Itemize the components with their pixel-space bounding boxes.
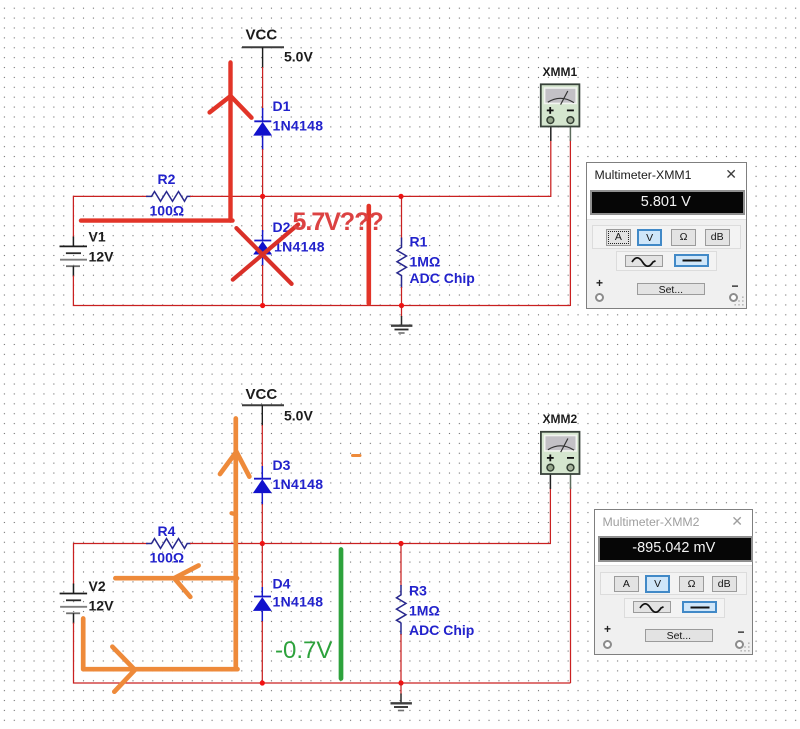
- node H junction (ground node): [398, 680, 403, 685]
- svg-text:1MΩ: 1MΩ: [409, 602, 440, 618]
- svg-text:100Ω: 100Ω: [150, 549, 185, 565]
- resistor R3 1Mohm ADC Chip: [397, 582, 475, 638]
- svg-text:12V: 12V: [89, 248, 115, 264]
- annotation red arrow shaft (up): [228, 63, 232, 221]
- svg-text:XMM2: XMM2: [543, 412, 578, 426]
- wire V2 bottom to bottom rail: [74, 623, 571, 683]
- resistor R2 100ohm: [146, 171, 191, 218]
- wire R3 to bottom rail: [400, 634, 402, 683]
- svg-text:R4: R4: [158, 523, 176, 539]
- ground (top circuit): [391, 306, 412, 334]
- wire node E down to D4: [261, 544, 263, 590]
- svg-text:100Ω: 100Ω: [150, 203, 185, 219]
- svg-text:1N4148: 1N4148: [273, 594, 324, 610]
- resistor R4 100ohm: [146, 523, 191, 565]
- annotation orange arrowhead right: [112, 647, 134, 692]
- readout display -895.042 mV: [598, 536, 753, 562]
- svg-text:R3: R3: [409, 582, 427, 598]
- annotation green vertical bar: [339, 550, 344, 679]
- annotation red thick horizontal line: [81, 218, 233, 222]
- wire VCC to D1: [262, 67, 264, 110]
- annotation orange arrowhead left: [174, 566, 198, 597]
- power symbol VCC (top): [242, 27, 313, 68]
- wire V1 bottom to bottom rail: [73, 276, 570, 306]
- multimeter icon XMM1: [541, 65, 580, 141]
- svg-text:D3: D3: [273, 457, 291, 473]
- annotation orange bottom path: [83, 619, 237, 670]
- svg-text:5.0V: 5.0V: [284, 407, 313, 423]
- wire node B down to R1: [401, 196, 403, 238]
- wire bottom rail up to XMM2 minus: [570, 487, 572, 683]
- node G junction: [260, 680, 265, 685]
- svg-text:VCC: VCC: [246, 27, 278, 44]
- wire node F down to R3: [400, 544, 402, 587]
- svg-text:ADC Chip: ADC Chip: [410, 270, 475, 286]
- wire VCC to D3: [261, 425, 263, 468]
- title bar Multimeter-XMM2: [603, 515, 700, 529]
- wire R1 to bottom rail: [401, 287, 403, 306]
- close button (XMM1 window): [725, 166, 737, 183]
- svg-text:5.7V???: 5.7V???: [293, 208, 383, 236]
- svg-text:-0.7V: -0.7V: [275, 637, 332, 664]
- node A junction: [260, 194, 265, 199]
- ground (bottom circuit): [391, 683, 412, 711]
- annotation orange nub on shaft: [232, 513, 237, 514]
- wire D2 to bottom rail: [262, 265, 264, 306]
- node F junction: [398, 541, 403, 546]
- node C junction (bottom rail): [260, 303, 265, 308]
- annotation red arrowhead: [210, 96, 252, 118]
- wire top rail right segment to XMM1 plus: [190, 139, 551, 196]
- power symbol VCC (bottom): [242, 386, 313, 426]
- svg-text:D4: D4: [273, 575, 291, 591]
- svg-text:XMM1: XMM1: [543, 65, 578, 79]
- svg-text:ADC Chip: ADC Chip: [409, 622, 474, 638]
- node B junction: [398, 194, 403, 199]
- annotation red X stroke 1: [236, 228, 291, 284]
- svg-text:R2: R2: [158, 171, 176, 187]
- readout display 5.801 V: [590, 190, 745, 216]
- diode D4 1N4148: [253, 575, 323, 622]
- svg-text:V2: V2: [89, 578, 106, 594]
- wire D4 to bottom rail: [261, 621, 263, 683]
- wire mid rail right segment to XMM2 plus: [190, 487, 550, 544]
- battery V2 12V: [60, 578, 114, 624]
- wire D1 to node A: [262, 149, 264, 196]
- close button (XMM2 window): [731, 513, 743, 530]
- wire D3 to node E: [261, 504, 263, 544]
- annotation red vertical bar: [366, 206, 371, 304]
- svg-text:R1: R1: [410, 233, 428, 249]
- wire bottom rail up to XMM1 minus: [569, 139, 571, 306]
- diode D2 1N4148: [253, 219, 325, 266]
- diode D1 1N4148: [253, 98, 323, 150]
- svg-text:1N4148: 1N4148: [273, 118, 324, 134]
- wire top rail left segment (V1 to R2): [73, 196, 148, 237]
- multimeter window XMM2: [594, 509, 753, 655]
- annotation orange arrowhead up: [220, 452, 249, 477]
- title bar Multimeter-XMM1: [595, 168, 692, 182]
- multimeter window XMM1: [586, 162, 747, 309]
- svg-text:D1: D1: [273, 98, 291, 114]
- multimeter icon XMM2: [541, 412, 580, 489]
- annotation orange small dash: [353, 454, 361, 457]
- resistor R1 1Mohm ADC Chip: [397, 233, 475, 288]
- battery V1 12V: [60, 229, 115, 277]
- svg-text:12V: 12V: [89, 598, 115, 614]
- svg-text:VCC: VCC: [246, 386, 278, 403]
- annotation red X stroke 2: [233, 225, 298, 280]
- annotation orange left segment: [115, 576, 237, 581]
- svg-text:V1: V1: [89, 229, 106, 245]
- wire node A down to D2: [262, 196, 264, 232]
- node D junction (ground node): [399, 303, 404, 308]
- diode D3 1N4148: [253, 457, 323, 505]
- svg-text:5.0V: 5.0V: [284, 48, 313, 64]
- node E junction: [260, 541, 265, 546]
- svg-text:1MΩ: 1MΩ: [410, 253, 441, 269]
- annotation orange arrow shaft (up): [233, 419, 238, 670]
- wire mid rail left segment (V2 to R4): [74, 544, 149, 585]
- svg-text:1N4148: 1N4148: [273, 476, 324, 492]
